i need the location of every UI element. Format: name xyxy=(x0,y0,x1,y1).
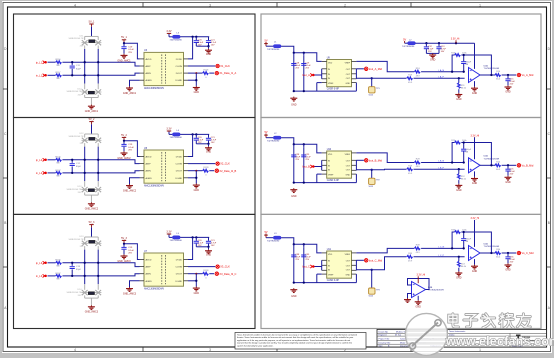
junction fb cap xyxy=(463,141,465,163)
svg-text:R137: R137 xyxy=(55,273,61,275)
svg-text:GND: GND xyxy=(291,295,297,298)
isolated modulator U5 AMC1306M05 xyxy=(144,147,184,188)
ferrite bead L3 7427926090 xyxy=(266,233,281,242)
junction out xyxy=(490,74,492,76)
svg-text:5V_1: 5V_1 xyxy=(89,20,95,23)
wire TVS risers xyxy=(85,147,99,182)
port Iout_A_Mid xyxy=(365,67,383,71)
port Iout_B_Mid xyxy=(365,158,383,162)
svg-text:16V: 16V xyxy=(211,245,215,247)
svg-text:25V: 25V xyxy=(295,67,299,69)
wire opamp vplus xyxy=(474,43,476,69)
svg-text:R116: R116 xyxy=(55,59,61,61)
svg-text:U4A: U4A xyxy=(484,242,489,245)
resistor R117 xyxy=(55,72,61,80)
wire OUT bracket xyxy=(355,69,357,79)
port X3_Data xyxy=(215,272,236,276)
wire GND pin xyxy=(355,83,357,92)
junction rail xyxy=(293,52,305,54)
ground GND_AMC3 agnd xyxy=(123,287,137,295)
capacitor C11 82pF xyxy=(70,62,82,75)
power 3.3V_Hi xyxy=(471,134,480,137)
svg-text:AINP: AINP xyxy=(146,65,152,68)
svg-text:AVDD: AVDD xyxy=(146,259,152,262)
resistor R18 49.9k upper xyxy=(415,68,421,77)
svg-text:VREF: VREF xyxy=(328,275,334,277)
svg-text:25V: 25V xyxy=(305,67,309,69)
wire AINP segment xyxy=(62,62,139,66)
wire OUT bracket xyxy=(355,260,357,270)
svg-text:warrant that the design is pro: warrant that the design is production wo… xyxy=(237,342,353,345)
svg-text:NB: NB xyxy=(56,162,60,164)
svg-text:AMC1306M05DWV: AMC1306M05DWV xyxy=(144,287,165,290)
wire opamp out xyxy=(480,252,495,254)
resistor R26 100k xyxy=(451,140,467,144)
wire opamp vplus xyxy=(474,137,476,159)
ground GND bead xyxy=(205,247,212,257)
svg-text:7427926090: 7427926090 xyxy=(267,140,280,142)
svg-text:DVDD: DVDD xyxy=(176,157,183,159)
svg-text:U4A: U4A xyxy=(484,64,489,67)
capacitor C24 100pF xyxy=(461,143,472,163)
resistor R126 xyxy=(55,157,61,165)
tvs diode D12 (DNP) xyxy=(69,133,102,147)
capacitor C12 0.1uF xyxy=(424,43,434,53)
resistor R38 49.9k upper xyxy=(415,245,421,254)
svg-text:SMBJ26CA-TR: SMBJ26CA-TR xyxy=(67,291,82,294)
svg-text:82pF: 82pF xyxy=(76,166,82,168)
junction DOUT xyxy=(195,273,197,275)
svg-text:5V: 5V xyxy=(403,38,406,41)
junction rail xyxy=(191,36,197,38)
resistor R16 100k xyxy=(451,52,467,56)
resistor R39 49.9k lower xyxy=(407,253,413,262)
svg-text:R126: R126 xyxy=(55,157,61,159)
svg-text:CASR 6-NP: CASR 6-NP xyxy=(327,279,340,282)
power 5V_3 top xyxy=(89,221,95,227)
ground GND caps2 xyxy=(429,53,436,61)
junction bottom rail xyxy=(293,281,305,283)
wire bead rail xyxy=(180,236,209,238)
svg-text:16V: 16V xyxy=(211,142,215,144)
junction nin xyxy=(458,256,460,258)
ferrite bead L4 7427926090 xyxy=(170,130,183,139)
resistor R19 49.9k lower xyxy=(407,75,413,84)
junction TP xyxy=(371,269,373,271)
ground GND U4B nin xyxy=(404,298,411,302)
svg-text:I_B_N: I_B_N xyxy=(438,161,445,163)
svg-text:Project Title:: Project Title: xyxy=(379,337,390,340)
capacitor C20 0.1uF xyxy=(194,237,204,247)
svg-text:B: B xyxy=(4,221,6,225)
isolated modulator U3 AMC1306M05 xyxy=(144,49,184,90)
svg-text:GND: GND xyxy=(472,270,478,273)
svg-text:Texas Instruments and/or its l: Texas Instruments and/or its licensors d… xyxy=(237,333,357,336)
wire R to port xyxy=(209,72,214,74)
svg-text:GND: GND xyxy=(472,92,478,95)
capacitor C21 4.7uF xyxy=(206,134,217,144)
junction TVS xyxy=(84,159,100,174)
svg-text:5V_1: 5V_1 xyxy=(121,36,127,39)
power 5V_3 mid xyxy=(121,237,127,243)
svg-text:R117: R117 xyxy=(55,72,61,74)
wire OUT to port xyxy=(356,68,364,70)
junction out cap xyxy=(507,74,509,76)
wire out to port xyxy=(502,164,517,166)
capacitor C13 4.7uF xyxy=(436,43,446,53)
capacitor C20 0.1uF xyxy=(194,134,204,144)
ground GND dgnd xyxy=(193,86,200,94)
svg-text:DOUT: DOUT xyxy=(176,171,183,173)
wire DOUT out xyxy=(188,273,203,275)
wire to nin input xyxy=(414,256,465,258)
dnp marker top xyxy=(89,137,95,140)
svg-text:7427926090: 7427926090 xyxy=(267,240,280,242)
wire VREF down xyxy=(317,174,322,183)
svg-text:R118: R118 xyxy=(203,69,209,71)
capacitor C19 0.1uF xyxy=(301,62,311,69)
ground GND dgnd xyxy=(193,184,200,192)
svg-text:AMC1306M05DWV: AMC1306M05DWV xyxy=(144,184,165,187)
svg-text:25V: 25V xyxy=(510,83,514,85)
svg-text:82pF: 82pF xyxy=(76,269,82,271)
svg-text:DGND: DGND xyxy=(176,281,183,283)
svg-text:GND: GND xyxy=(206,254,212,257)
capacitor C25 0.1uF xyxy=(505,165,515,175)
svg-text:NB: NB xyxy=(56,176,60,178)
wire GND pin xyxy=(355,274,357,283)
power 5V right B xyxy=(264,131,268,138)
wire cap risers xyxy=(294,144,304,182)
capacitor C12 82pF xyxy=(70,160,82,173)
sensor pin stubs xyxy=(322,153,357,174)
wire U4B nin xyxy=(408,294,412,299)
wire opamp out xyxy=(480,164,495,166)
wire in_L2 xyxy=(48,172,56,174)
wire ip_L2 xyxy=(48,159,56,161)
ground GND_AMC2 tvs xyxy=(85,202,99,210)
wire OUT lower xyxy=(356,257,406,270)
svg-text:25V: 25V xyxy=(295,259,299,261)
ground GND rail xyxy=(290,97,297,107)
wire IN bracket xyxy=(314,69,322,79)
wire to nin input xyxy=(414,168,465,170)
wire to inv input xyxy=(421,247,465,249)
svg-text:R127: R127 xyxy=(55,170,61,172)
port Vo_A_Mid xyxy=(517,73,534,77)
svg-text:Iout_C_Mid: Iout_C_Mid xyxy=(369,258,383,262)
svg-text:3: 3 xyxy=(209,348,211,352)
svg-text:Iout_C: Iout_C xyxy=(302,265,310,269)
resistor R138 0 xyxy=(203,270,210,279)
wire OUT bracket xyxy=(355,160,357,170)
wire DGND xyxy=(188,171,196,184)
junction DOUT xyxy=(195,170,197,172)
junction rail xyxy=(293,243,305,245)
wire to inv input xyxy=(421,71,465,73)
ground GND opamp xyxy=(471,87,478,95)
svg-text:25V: 25V xyxy=(295,159,299,161)
svg-text:X1_CLK: X1_CLK xyxy=(220,64,230,68)
svg-text:26V: 26V xyxy=(80,143,84,145)
svg-text:5V: 5V xyxy=(264,231,267,234)
ground GND out xyxy=(505,176,512,184)
svg-text:TLV9062IDSGR: TLV9062IDSGR xyxy=(484,158,500,160)
junction xyxy=(123,243,125,245)
svg-text:TLV9062IDSGR: TLV9062IDSGR xyxy=(484,246,500,248)
power 5V right A xyxy=(264,39,268,46)
resistor R127 xyxy=(55,170,61,178)
wire OUT lower xyxy=(356,77,406,79)
resistor R28 49.9k upper xyxy=(415,159,421,168)
junction caps xyxy=(207,246,209,248)
junction out cap xyxy=(507,252,509,254)
capacitor C19 0.1uF xyxy=(121,43,134,54)
svg-text:SMBJ26CA-TR: SMBJ26CA-TR xyxy=(67,90,82,93)
svg-text:Texas Instruments: Texas Instruments xyxy=(449,330,465,333)
capacitor C28 10uF xyxy=(291,154,301,161)
wire AGND xyxy=(130,178,140,184)
svg-text:GND: GND xyxy=(346,175,351,177)
power 5V_1 mid xyxy=(121,36,127,42)
tvs diode D12 (DNP) xyxy=(67,84,102,105)
svg-text:1: 1 xyxy=(479,348,481,352)
wire CLKIN out xyxy=(188,65,215,67)
wire VREF down xyxy=(317,274,322,283)
svg-text:Size:: Size: xyxy=(379,345,384,347)
svg-text:5V: 5V xyxy=(264,39,267,42)
wire R to port xyxy=(209,170,214,172)
svg-text:AINP: AINP xyxy=(146,163,152,166)
ground GND opamp xyxy=(471,265,478,273)
wire DGND xyxy=(188,274,196,287)
port Iout_B xyxy=(302,165,314,169)
svg-text:NB: NB xyxy=(56,265,60,267)
svg-text:26V: 26V xyxy=(80,45,84,47)
svg-text:in_L1: in_L1 xyxy=(36,73,43,77)
svg-text:AMC1306M05DWV: AMC1306M05DWV xyxy=(144,87,165,90)
ground GND_AMC3 tvs xyxy=(85,305,99,313)
svg-text:Iout_A: Iout_A xyxy=(302,73,310,77)
ferrite bead L3 7427926090 xyxy=(170,32,183,41)
wire OUT to port xyxy=(356,159,364,161)
resistor R29 49.9k lower xyxy=(407,165,413,174)
resistor R34 66.5 xyxy=(495,249,501,258)
wire 3.3 rail xyxy=(416,42,475,44)
resistor R128 0 xyxy=(203,167,210,176)
port in_L2 xyxy=(36,171,47,175)
net label Iout_C_P xyxy=(438,255,445,257)
current sensor U9 CASR 6-NP xyxy=(327,56,352,90)
svg-text:GND: GND xyxy=(416,306,422,309)
svg-text:GND: GND xyxy=(206,53,212,56)
svg-text:3.3V_Hi: 3.3V_Hi xyxy=(451,38,460,41)
svg-text:3.3V: 3.3V xyxy=(166,30,171,33)
svg-text:VREF: VREF xyxy=(328,83,334,85)
junction out xyxy=(490,252,492,254)
tvs diode D13 (DNP) xyxy=(69,236,102,250)
watermark text dianzifashaoyou xyxy=(449,314,531,328)
svg-text:26V: 26V xyxy=(78,192,82,194)
svg-text:SMBJ26CA-TR: SMBJ26CA-TR xyxy=(69,135,84,138)
current sensor U10 CASR 6-NP xyxy=(327,148,352,182)
junction DGND xyxy=(195,280,197,282)
wire CLKIN out xyxy=(188,163,215,165)
svg-text:26V: 26V xyxy=(78,94,82,96)
svg-text:3.3V_Hi: 3.3V_Hi xyxy=(471,134,480,137)
svg-text:Iout_B_Mid: Iout_B_Mid xyxy=(369,158,383,162)
power 3.3V_Hi xyxy=(471,217,480,220)
junction xyxy=(71,159,73,174)
port ip_L3 xyxy=(36,261,47,265)
wire in_L3 xyxy=(48,275,56,277)
svg-text:5V_2: 5V_2 xyxy=(89,118,95,121)
capacitor C29 0.1uF xyxy=(301,154,311,161)
wire OUT upper xyxy=(356,153,414,163)
svg-text:AVDD: AVDD xyxy=(146,156,152,159)
svg-text:4: 4 xyxy=(74,4,76,8)
op-amp U4A TLV9062 xyxy=(469,64,500,82)
dnp marker bottom xyxy=(88,292,94,295)
dnp marker top xyxy=(89,240,95,243)
wire caps bottom xyxy=(196,143,208,145)
wire ip_L1 xyxy=(48,61,56,63)
svg-text:GND: GND xyxy=(456,98,462,101)
svg-text:GND_AMC3: GND_AMC3 xyxy=(85,311,99,314)
junction xyxy=(123,42,125,44)
wire DOUT out xyxy=(188,72,203,74)
capacitor C39 0.1uF xyxy=(301,254,311,261)
junction 3.3 rail xyxy=(425,42,457,44)
net label Iout_B_P xyxy=(438,167,445,169)
svg-text:VREF: VREF xyxy=(345,62,351,64)
wire opamp vminus xyxy=(474,259,476,265)
sensor pin stubs xyxy=(322,61,357,82)
wire 5V to TVS xyxy=(91,124,93,134)
junction nin xyxy=(458,168,460,170)
port X3_CLK xyxy=(216,265,230,269)
svg-text:GND_AMC2: GND_AMC2 xyxy=(85,208,99,211)
svg-text:CLKIN: CLKIN xyxy=(176,66,183,68)
resistor R118 0 xyxy=(203,69,209,78)
svg-text:system functionality for your: system functionality for your applicatio… xyxy=(237,344,274,347)
wire feedback loop xyxy=(452,143,491,166)
junction DGND xyxy=(195,177,197,179)
port Vo_B_Mid xyxy=(517,163,534,167)
svg-text:NB: NB xyxy=(56,65,60,67)
wire AINP segment xyxy=(62,160,139,164)
op-amp U4B unused xyxy=(412,282,445,298)
resistor R12 86.6k xyxy=(458,169,467,184)
junction TVS xyxy=(84,61,100,76)
svg-text:GND_AMC3: GND_AMC3 xyxy=(123,292,137,295)
resistor R137 xyxy=(55,273,61,281)
wire U4B feedback xyxy=(408,279,430,290)
svg-text:B: B xyxy=(548,221,550,225)
ground GND_AMC2 cap xyxy=(117,151,131,160)
capacitor C35 0.1uF xyxy=(505,253,515,263)
svg-text:U10: U10 xyxy=(327,148,332,151)
svg-text:NB: NB xyxy=(56,78,60,80)
svg-text:GND_AMC2: GND_AMC2 xyxy=(123,189,137,192)
svg-text:16V: 16V xyxy=(211,44,215,46)
dnp marker bottom xyxy=(88,91,94,94)
watermark logo circle xyxy=(405,313,447,355)
junction bottom rail xyxy=(293,181,305,183)
svg-text:GND: GND xyxy=(346,83,351,85)
svg-text:AINP: AINP xyxy=(146,266,152,269)
svg-text:26V: 26V xyxy=(78,295,82,297)
dnp marker top xyxy=(89,40,95,43)
resistor R116 xyxy=(55,59,61,67)
resistor R14 66.5 xyxy=(495,71,501,80)
svg-text:25V: 25V xyxy=(305,259,309,261)
wire 5V to TVS xyxy=(91,227,93,237)
capacitor C38 10uF xyxy=(291,254,301,261)
svg-text:Vo_C_Mid: Vo_C_Mid xyxy=(522,251,535,255)
svg-text:Engineer:: Engineer: xyxy=(379,335,388,337)
capacitor C19 0.1uF xyxy=(121,244,134,255)
junction xyxy=(71,262,73,277)
power 5V right C xyxy=(264,231,268,238)
test point TP2 xyxy=(369,170,381,188)
svg-text:Vo_B_Mid: Vo_B_Mid xyxy=(522,163,534,167)
power 3.3V_Hi U4B xyxy=(417,274,426,284)
ferrite bead L2 7427926090 xyxy=(266,133,281,142)
port Iout_A xyxy=(302,73,314,77)
svg-text:Iout_B: Iout_B xyxy=(302,165,310,169)
svg-text:VDD: VDD xyxy=(328,254,333,256)
svg-text:5V_3: 5V_3 xyxy=(89,221,95,224)
svg-text:GND: GND xyxy=(291,195,297,198)
svg-text:VREF: VREF xyxy=(345,154,351,156)
svg-text:25V: 25V xyxy=(128,149,132,151)
wire 5V to AVDD xyxy=(124,43,140,59)
svg-text:GND_AMC3: GND_AMC3 xyxy=(117,260,131,263)
wire bead rail xyxy=(180,36,209,38)
ground GND U4B xyxy=(415,300,422,308)
junction xyxy=(123,140,125,142)
wire feedback loop xyxy=(452,55,491,75)
svg-text:GND_AMC1: GND_AMC1 xyxy=(117,59,131,62)
resistor R36 100k xyxy=(451,229,467,233)
wire cap risers xyxy=(294,244,304,282)
wire caps bottom2 xyxy=(426,52,439,54)
svg-text:16V: 16V xyxy=(441,51,445,53)
wire TVS risers xyxy=(85,250,99,285)
wire IN bracket xyxy=(314,260,322,270)
svg-text:GND: GND xyxy=(430,59,436,62)
svg-text:GND: GND xyxy=(456,277,462,280)
wire AGND xyxy=(130,281,140,287)
svg-text:X3_Data_I3_C: X3_Data_I3_C xyxy=(219,272,236,276)
ground GND out xyxy=(505,263,512,271)
ground GND_AMC2 agnd xyxy=(123,184,137,192)
ground GND_AMC1 agnd xyxy=(123,86,137,94)
ferrite bead L1b xyxy=(402,39,415,48)
ground GND divider xyxy=(455,271,462,279)
wire opamp out xyxy=(480,74,495,76)
port in_L1 xyxy=(36,73,47,77)
ground GND_AMC1 tvs xyxy=(85,105,99,113)
tvs diode D14 (DNP) xyxy=(67,284,102,305)
net label Iout_A_N xyxy=(438,69,445,72)
ground GND dgnd xyxy=(193,287,200,295)
port X1_Data xyxy=(215,71,236,75)
svg-text:CASR 6-NP: CASR 6-NP xyxy=(327,88,340,91)
svg-text:DOUT: DOUT xyxy=(176,274,183,276)
wire bead to rail xyxy=(281,46,322,61)
